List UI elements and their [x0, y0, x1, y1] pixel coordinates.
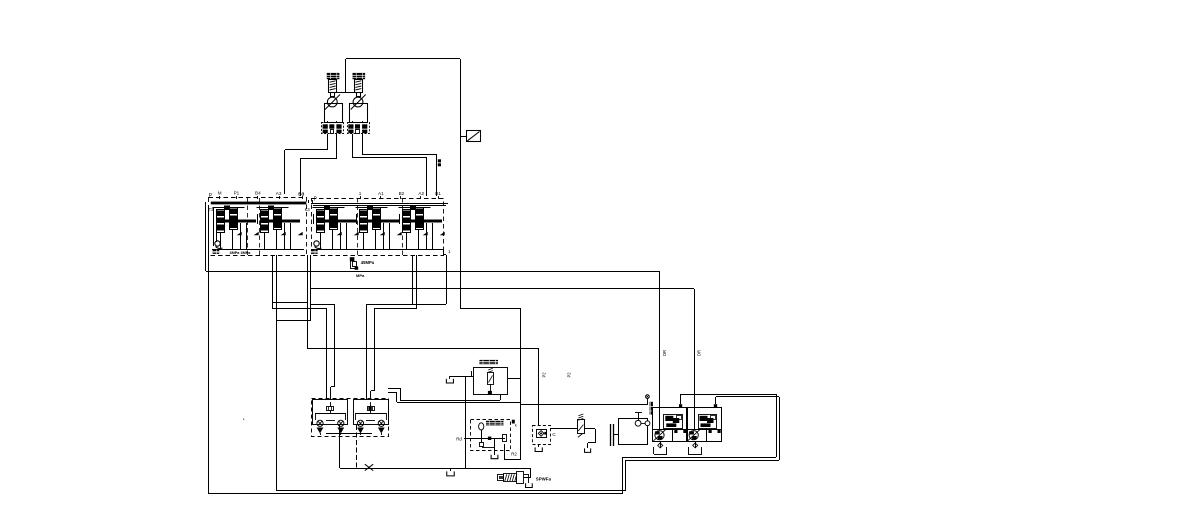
- wire right drop line: [460, 59, 462, 309]
- svg-text:P2: P2: [542, 372, 547, 378]
- tank T6: [585, 448, 591, 452]
- svg-text:A3: A3: [276, 191, 282, 196]
- svg-text:A1: A1: [378, 191, 384, 196]
- right control valve manifold block: [312, 199, 444, 256]
- wire R2 drop: [504, 444, 506, 459]
- label P2 vertical: [650, 402, 653, 415]
- svg-text:P1: P1: [234, 191, 240, 196]
- back pressure valve SP: [498, 475, 504, 481]
- wire drain mid vertical: [465, 376, 467, 468]
- pilot valve handle R: [355, 80, 363, 93]
- wire pump2 supply horizontal: [310, 288, 694, 290]
- valve block under pilot handle L: [322, 123, 344, 134]
- bottom rail step: [443, 249, 445, 255]
- pilot valve handle L: [329, 80, 337, 93]
- svg-text:A2: A2: [418, 191, 424, 196]
- tank T1: [447, 471, 455, 476]
- tank return outer step: [622, 457, 624, 494]
- svg-text:B1: B1: [435, 191, 441, 196]
- wire port A2 drop: [412, 255, 414, 304]
- wire Rd inlet: [464, 438, 505, 440]
- filter F1: [467, 131, 481, 142]
- orifice plug: [368, 407, 371, 410]
- travel valve right: [354, 400, 389, 425]
- svg-text:B3: B3: [298, 192, 304, 198]
- manifold outer frame left: [205, 202, 207, 271]
- relief valve left manifold: [215, 241, 220, 246]
- wire pilot pressure to pumps: [521, 404, 647, 406]
- wire drain collector: [340, 468, 530, 470]
- travel counterbalance valve block: [312, 399, 389, 437]
- reducing valve inside: [488, 373, 494, 385]
- left control valve manifold block: [209, 198, 307, 256]
- wire port A3 drop: [272, 255, 274, 308]
- label handle L: [327, 73, 340, 79]
- wire unit out right: [508, 378, 521, 380]
- wire travel drain b: [356, 425, 358, 468]
- wire port drop: [310, 255, 312, 321]
- wire unit out bottom: [500, 395, 502, 400]
- wire to back-pressure valve: [530, 468, 532, 478]
- pilot relief under manifold: [350, 257, 355, 261]
- main pump 1: [653, 408, 688, 442]
- valve station 2 (arm): [257, 206, 303, 250]
- suction strainer 2: [688, 447, 690, 454]
- accumulator bladder: [479, 423, 484, 430]
- wire pilot2 b down: [362, 134, 364, 154]
- wire pilot2 a down: [352, 134, 354, 158]
- manifold section divider: [357, 198, 359, 256]
- wire to travel valve a: [272, 308, 326, 310]
- wire to tank: [450, 376, 473, 378]
- valve station 1 (boom): [213, 206, 259, 250]
- right manifold bottom rail: [311, 249, 444, 251]
- pilot supply unit U2: [474, 368, 508, 395]
- tank return inner top: [716, 396, 779, 398]
- manifold section divider: [247, 198, 249, 255]
- svg-text:P2: P2: [567, 372, 572, 378]
- manifold inner frame / tank line: [208, 205, 210, 494]
- tank return outer lower-right: [623, 457, 776, 459]
- wire step b: [388, 392, 397, 394]
- suction strainer 1: [653, 447, 655, 454]
- engine E: [610, 424, 612, 446]
- plugged port X: [365, 464, 373, 470]
- left manifold bottom rail: [212, 249, 304, 251]
- manifold section divider: [402, 198, 404, 256]
- wire travel drain a: [339, 425, 341, 468]
- wire drain to filter unit: [460, 308, 521, 310]
- svg-text:k: k: [515, 422, 517, 427]
- travel block bottom gallery: [326, 433, 372, 435]
- wire long return drop: [276, 255, 278, 491]
- svg-text:R2: R2: [511, 452, 517, 457]
- svg-text:Rd: Rd: [456, 436, 462, 441]
- label pilot supply unit: [479, 360, 498, 364]
- svg-text:3MPa 3MPa: 3MPa 3MPa: [230, 251, 252, 255]
- buffer valve block Rd: [471, 420, 511, 451]
- wire jumper: [272, 302, 307, 304]
- relief valve right manifold: [314, 241, 319, 246]
- svg-text:DR: DR: [662, 350, 667, 356]
- wire pilot supply top bracket: [346, 58, 460, 60]
- wire pilot tee: [336, 92, 354, 94]
- wire to travel valve c: [367, 304, 413, 306]
- wire jumper low: [276, 320, 310, 322]
- pressure test point M1: [646, 395, 650, 399]
- wire down right of Rd block: [520, 377, 522, 459]
- port R mark: [512, 420, 515, 424]
- pump port marks: [679, 404, 682, 407]
- svg-text:SPWFa: SPWFa: [536, 476, 552, 481]
- svg-text:K3: K3: [305, 207, 311, 212]
- svg-text:B2: B2: [399, 191, 405, 196]
- tank T3: [446, 379, 453, 383]
- wire pump1 supply drop: [659, 271, 661, 414]
- svg-text:B4: B4: [255, 191, 261, 196]
- wire port B1 drop: [416, 255, 418, 308]
- port R: [503, 435, 507, 442]
- right manifold P gallery: [311, 203, 448, 205]
- tank return outer right riser: [776, 394, 778, 457]
- orifice node: [488, 437, 491, 440]
- gear pumps: [635, 420, 650, 426]
- valve block under pilot handle R: [348, 123, 370, 134]
- wire pilot source drop: [307, 255, 309, 349]
- tank return outer bottom: [209, 493, 623, 495]
- svg-text:45MPa: 45MPa: [361, 260, 375, 265]
- label 25MPa: [311, 250, 318, 254]
- wire pump1 supply horizontal: [206, 271, 659, 273]
- label handle R: [353, 73, 366, 79]
- svg-text:M: M: [218, 191, 222, 196]
- manifold P gallery thick bar: [211, 202, 306, 205]
- wire pump2 supply drop: [694, 289, 696, 414]
- label 25MPa: [213, 250, 220, 254]
- tank return inner lower-right: [626, 460, 779, 462]
- svg-text:1: 1: [359, 191, 362, 196]
- manifold section divider: [259, 198, 261, 255]
- wire down to pilot tee: [345, 59, 347, 92]
- svg-text:MPa: MPa: [356, 273, 365, 278]
- svg-text:DR: DR: [697, 350, 702, 356]
- tank stem: [450, 468, 452, 471]
- wire pilot1 a down: [327, 134, 329, 150]
- label buffer block: [486, 421, 504, 426]
- wire to travel valve b: [310, 304, 335, 306]
- tank T5: [535, 447, 542, 451]
- tank return inner step: [625, 460, 627, 491]
- relief valve RV1: [578, 420, 585, 434]
- check unit C: [533, 426, 551, 445]
- T3 line: [213, 207, 215, 246]
- wire C to relief: [550, 428, 578, 430]
- label B: [438, 159, 441, 162]
- tank T4: [491, 455, 498, 459]
- wire pilot source to solenoid feed: [307, 348, 539, 350]
- stray dot: [243, 419, 244, 420]
- wire to travel valve d: [374, 308, 417, 310]
- tank return inner bottom: [277, 490, 626, 492]
- port leader ticks: [219, 196, 221, 199]
- tank return inner right riser: [779, 397, 781, 460]
- wire T out: [444, 254, 446, 256]
- travel valve left: [313, 400, 348, 425]
- valve station 3 (swing): [313, 206, 359, 250]
- main pump 2: [687, 408, 722, 442]
- valve station 5 (spare): [399, 206, 445, 250]
- wire pilot1 b down: [336, 134, 338, 158]
- svg-text:1: 1: [448, 249, 451, 255]
- wire step a: [388, 388, 400, 390]
- tank return outer top: [681, 394, 776, 396]
- valve station 4 (bucket): [356, 206, 402, 250]
- check node: [480, 443, 484, 447]
- tank T2: [526, 483, 533, 487]
